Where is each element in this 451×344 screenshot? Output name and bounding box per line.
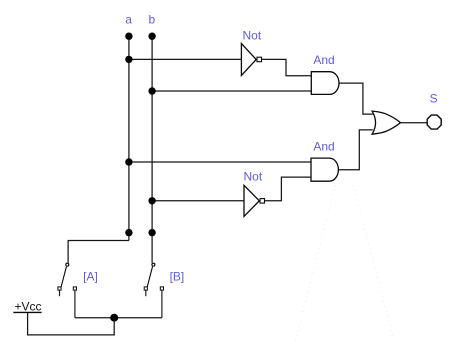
junction dot a-NOT1 <box>125 56 132 63</box>
junction dot b-AND1 <box>148 87 155 94</box>
svg-text:a: a <box>125 13 132 27</box>
wire: b to NOT2 input <box>152 200 244 202</box>
switch B pivot circle <box>152 263 155 266</box>
wire: NOT1 output to AND1 upper input <box>262 59 312 75</box>
svg-text:And: And <box>313 140 334 154</box>
NOT gate U1 triangle <box>241 44 256 76</box>
wire: NOT2 output to AND2 lower input <box>265 177 311 201</box>
svg-text:S: S <box>430 92 438 106</box>
NOT gate U4 triangle <box>244 185 259 216</box>
junction dot Vcc rail <box>110 314 118 322</box>
junction dot b lower <box>148 229 155 236</box>
wire: AND1 output to OR upper input <box>339 83 373 114</box>
switch B left contact <box>144 287 147 290</box>
switch B left contact stub <box>145 290 147 296</box>
switch A left contact stub <box>59 290 61 296</box>
NOT gate U1 bubble <box>257 57 262 62</box>
svg-text:b: b <box>148 13 155 27</box>
junction dot b-NOT2 <box>148 197 155 204</box>
wire: OR output to terminal S <box>400 122 427 124</box>
junction dot a-AND2 <box>125 158 132 165</box>
wire: a to NOT1 input <box>129 58 242 60</box>
OR gate U5 body <box>372 111 400 134</box>
junction dot a lower <box>125 229 132 236</box>
junction dot a top <box>125 33 132 40</box>
wire: input a vertical <box>128 36 130 241</box>
switch B lever <box>147 267 152 287</box>
wire: input a corner to switch A <box>68 241 129 263</box>
svg-text:And: And <box>313 53 334 67</box>
switch A lever <box>61 267 66 287</box>
wire: Vcc rail horizontal <box>75 317 162 319</box>
watermark faint dotted line right <box>353 185 395 344</box>
svg-text:[B]: [B] <box>170 270 185 284</box>
wire: b to AND1 lower input <box>152 90 311 92</box>
switch A left contact <box>58 287 61 290</box>
svg-text:[A]: [A] <box>83 270 98 284</box>
wire: switch A right contact to rail <box>74 290 76 318</box>
switch A pivot circle <box>66 263 69 266</box>
switch A right contact <box>73 287 76 290</box>
svg-text:+Vcc: +Vcc <box>15 300 42 314</box>
AND gate U3 body <box>311 158 338 181</box>
wire: AND2 output to OR lower input <box>338 130 372 170</box>
output terminal S octagon <box>427 115 441 129</box>
AND gate U2 body <box>311 72 339 95</box>
junction dot b top <box>148 33 155 40</box>
watermark faint dotted line left <box>295 185 336 344</box>
wire: switch B right contact to rail <box>161 290 163 318</box>
switch B right contact <box>160 287 163 290</box>
svg-text:Not: Not <box>244 170 263 184</box>
wire: input b vertical <box>151 36 153 263</box>
Vcc terminal bar <box>13 311 41 313</box>
wire: rail down and left to Vcc <box>28 312 115 335</box>
wire: a to AND2 upper input <box>129 161 311 163</box>
NOT gate U4 bubble <box>260 199 265 204</box>
svg-text:Not: Not <box>243 29 262 43</box>
